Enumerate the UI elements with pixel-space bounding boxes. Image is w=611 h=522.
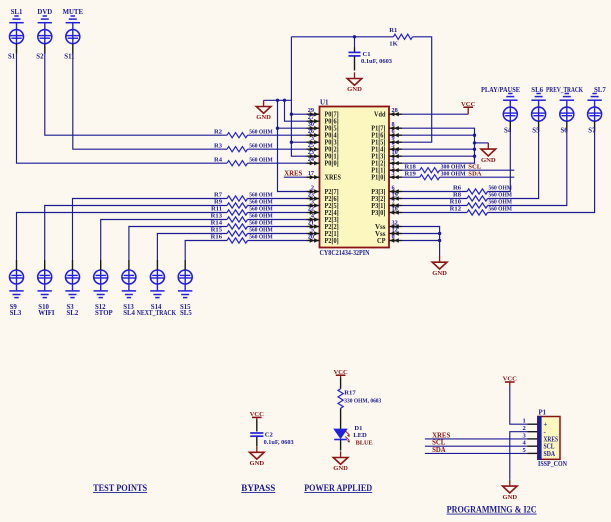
ground for C1 — [347, 72, 362, 93]
svg-text:R17: R17 — [344, 390, 356, 397]
svg-text:SCL: SCL — [432, 440, 446, 447]
svg-text:VCC: VCC — [461, 101, 476, 108]
svg-text:P0[0]: P0[0] — [325, 161, 339, 168]
wire Vdd to VCC — [402, 113, 468, 115]
capsense button S4 (PLAY/PAUSE) — [481, 87, 520, 134]
svg-text:P3[1]: P3[1] — [371, 203, 385, 210]
svg-text:0.1uF, 0603: 0.1uF, 0603 — [361, 58, 393, 65]
svg-text:S2: S2 — [36, 54, 44, 61]
svg-text:D1: D1 — [354, 425, 362, 432]
pin 10 P1[3] — [371, 149, 402, 160]
svg-text:560 OHM: 560 OHM — [249, 142, 273, 149]
pin 12 Vss — [375, 227, 402, 238]
svg-text:6: 6 — [392, 185, 395, 192]
svg-text:VCC: VCC — [250, 411, 265, 418]
capsense button S9 (SL3) — [9, 260, 23, 317]
capsense button S10 (WIFI) — [38, 260, 55, 317]
svg-text:R2: R2 — [214, 128, 223, 135]
pin 29 P0[7] — [307, 107, 339, 118]
ground for P1 — [502, 480, 517, 501]
svg-text:SL2: SL2 — [67, 310, 79, 317]
pin 5 P1[4] — [371, 142, 402, 153]
capsense button S3 (SL2) — [65, 260, 79, 317]
wire branch to P0[7] — [291, 113, 306, 115]
pin 32 Vss — [375, 220, 402, 231]
pin 3 P2[5] — [307, 199, 339, 210]
junction — [276, 99, 279, 102]
svg-text:WIFI: WIFI — [38, 310, 55, 317]
junction — [276, 127, 279, 130]
title POWER APPLIED — [304, 484, 372, 494]
pin 6 P1[6] — [371, 128, 402, 139]
junction — [290, 113, 293, 116]
svg-text:P1: P1 — [539, 410, 547, 417]
pin 25 P0[2] — [307, 142, 339, 153]
svg-text:560 OHM: 560 OHM — [489, 192, 513, 199]
svg-text:Vss: Vss — [375, 224, 386, 231]
svg-text:R18: R18 — [405, 163, 417, 170]
svg-text:SL3: SL3 — [10, 310, 22, 317]
svg-text:2: 2 — [311, 185, 314, 192]
svg-text:P2[3]: P2[3] — [325, 217, 339, 224]
LED D1 BLUE — [334, 425, 373, 450]
power VCC for P1 — [503, 376, 518, 386]
svg-text:P1[0]: P1[0] — [371, 175, 385, 182]
wire gnd to P0[6] — [285, 100, 307, 121]
wire S2 to R2 — [45, 53, 227, 135]
svg-text:NEXT_TRACK: NEXT_TRACK — [137, 310, 177, 317]
svg-text:GND: GND — [333, 465, 348, 472]
capsense button S1 (SL1) — [8, 9, 24, 61]
svg-text:ISSP_CON: ISSP_CON — [538, 461, 567, 468]
svg-text:XRES: XRES — [284, 171, 302, 178]
svg-text:560 OHM: 560 OHM — [249, 128, 273, 135]
wire P1[3] — [402, 155, 476, 158]
capsense button S14 (NEXT_TRACK) — [137, 260, 177, 317]
wire pin2 to GND — [510, 432, 528, 480]
svg-text:P0[6]: P0[6] — [325, 119, 339, 126]
svg-text:300 OHM: 300 OHM — [441, 163, 467, 170]
resistor R15 560 OHM — [211, 227, 307, 236]
svg-text:P2[1]: P2[1] — [325, 231, 339, 238]
pin 17 XRES — [307, 170, 342, 181]
svg-text:Vdd: Vdd — [374, 112, 386, 119]
power VCC for C2 — [250, 411, 265, 419]
svg-text:560 OHM: 560 OHM — [489, 206, 513, 213]
resistor R10 560 OHM — [402, 199, 513, 208]
svg-text:23: 23 — [308, 149, 314, 156]
wire S9 to R — [17, 213, 228, 261]
svg-text:P1[2]: P1[2] — [371, 161, 385, 168]
svg-text:P2[2]: P2[2] — [325, 224, 339, 231]
svg-text:CP: CP — [377, 238, 386, 245]
wire P1[7] bus — [402, 128, 475, 163]
capsense button S11 (MUTE) — [63, 9, 84, 61]
svg-text:SL4: SL4 — [123, 310, 135, 317]
capsense button S7 (SL7) — [587, 87, 606, 134]
wire S1 to R4 — [17, 53, 228, 163]
svg-text:S5: S5 — [532, 127, 540, 134]
svg-text:STOP: STOP — [95, 310, 113, 317]
svg-text:P2[5]: P2[5] — [325, 203, 339, 210]
svg-text:27: 27 — [308, 114, 314, 121]
svg-text:560 OHM: 560 OHM — [249, 234, 273, 241]
pin 27 P0[6] — [307, 114, 339, 125]
wire branch to P0[5] — [278, 127, 307, 129]
pin 21 P2[2] — [307, 220, 339, 231]
pin 22 P2[4] — [307, 206, 339, 217]
wire S11 to R3 — [73, 53, 227, 149]
svg-text:560 OHM: 560 OHM — [249, 227, 273, 234]
wire Vss net — [402, 227, 440, 257]
svg-text:560 OHM: 560 OHM — [489, 185, 513, 192]
svg-text:S1: S1 — [8, 54, 16, 61]
pin 19 P3[2] — [371, 192, 402, 203]
title TEST POINTS — [93, 484, 147, 494]
pin 1 P1[1] — [371, 163, 402, 174]
wire S15 to R — [185, 241, 227, 261]
svg-text:R8: R8 — [453, 192, 462, 199]
svg-text:GND: GND — [502, 494, 517, 501]
svg-text:22: 22 — [308, 206, 314, 213]
pin 26 P0[4] — [307, 128, 339, 139]
capsense button S5 (SL6) — [531, 87, 546, 134]
svg-text:C2: C2 — [265, 432, 274, 439]
node SCL to connector — [425, 440, 528, 447]
svg-text:SL5: SL5 — [180, 310, 192, 317]
svg-text:P1[6]: P1[6] — [371, 133, 385, 140]
power VCC at Vdd — [461, 101, 476, 114]
svg-text:560 OHM: 560 OHM — [249, 213, 273, 220]
svg-text:SL6: SL6 — [531, 87, 543, 94]
pin 24 P0[0] — [307, 156, 339, 167]
svg-text:3: 3 — [392, 170, 395, 177]
svg-text:560 OHM: 560 OHM — [249, 206, 273, 213]
svg-text:18: 18 — [392, 206, 398, 213]
pin 9 P1[5] — [371, 135, 402, 146]
wire S3 to R — [73, 199, 228, 261]
wire S10 to R — [45, 206, 227, 261]
pin 20 P2[0] — [307, 234, 339, 245]
svg-text:6: 6 — [392, 128, 395, 135]
capsense button S12 (STOP) — [94, 260, 113, 317]
svg-text:560 OHM: 560 OHM — [249, 192, 273, 199]
svg-text:GND: GND — [347, 86, 362, 93]
svg-text:PREV_TRACK: PREV_TRACK — [546, 87, 584, 94]
svg-text:R4: R4 — [214, 156, 223, 163]
resistor R18 300 OHM (SCL) — [402, 163, 514, 172]
svg-text:XRES: XRES — [325, 175, 342, 182]
svg-text:GND: GND — [432, 270, 447, 277]
svg-text:LED: LED — [353, 432, 367, 439]
svg-text:1: 1 — [523, 418, 526, 425]
svg-text:P3[2]: P3[2] — [371, 196, 385, 203]
svg-text:R15: R15 — [211, 227, 223, 234]
svg-text:SDA: SDA — [544, 451, 556, 458]
resistor R4 560 OHM — [214, 156, 307, 165]
svg-text:R7: R7 — [214, 192, 223, 199]
resistor R8 560 OHM — [402, 192, 513, 201]
power VCC for R17 — [333, 369, 348, 377]
svg-text:XRES: XRES — [432, 432, 450, 439]
svg-text:XRES: XRES — [544, 436, 559, 443]
svg-text:+: + — [544, 422, 548, 429]
wire gnd to P2[7] — [278, 100, 307, 191]
svg-text:9: 9 — [392, 135, 395, 142]
svg-text:8: 8 — [392, 121, 395, 128]
wire VCC to pin1 — [510, 386, 528, 424]
pin 28 Vdd — [374, 107, 402, 118]
svg-text:MUTE: MUTE — [63, 9, 84, 16]
svg-text:P0[3]: P0[3] — [325, 140, 339, 147]
wire top net vertical — [291, 37, 306, 156]
svg-text:SDA: SDA — [468, 170, 481, 177]
svg-text:P2[0]: P2[0] — [325, 238, 339, 245]
svg-text:R10: R10 — [450, 199, 462, 206]
title BYPASS — [241, 484, 275, 494]
node SDA to connector — [425, 447, 528, 454]
svg-text:DVD: DVD — [37, 9, 52, 16]
pin 18 P3[0] — [371, 206, 402, 217]
wire S13 to R — [129, 227, 227, 261]
title PROGRAMMING & I2C — [447, 505, 537, 515]
svg-text:S6: S6 — [561, 127, 569, 134]
svg-text:P1[1]: P1[1] — [371, 168, 385, 175]
resistor R16 560 OHM — [211, 234, 307, 243]
svg-text:0.1uF, 0603: 0.1uF, 0603 — [264, 439, 295, 446]
ground for C2 — [249, 446, 264, 467]
wire gnd branch — [473, 141, 489, 144]
resistor R1 1K — [389, 27, 412, 47]
svg-text:R14: R14 — [211, 220, 223, 227]
connector P1 ISSP_CON — [523, 410, 568, 468]
svg-text:S4: S4 — [504, 127, 512, 134]
svg-text:560 OHM: 560 OHM — [249, 156, 273, 163]
resistor R2 560 OHM — [214, 128, 307, 137]
svg-text:3: 3 — [311, 199, 314, 206]
resistor R11 560 OHM — [211, 206, 307, 215]
svg-text:P0[5]: P0[5] — [325, 126, 339, 133]
svg-text:BLUE: BLUE — [356, 439, 373, 446]
pin 3 P1[0] — [371, 170, 402, 181]
svg-text:R12: R12 — [450, 206, 462, 213]
svg-text:R11: R11 — [211, 206, 222, 213]
ground left of U1 — [256, 100, 271, 121]
svg-text:7: 7 — [392, 199, 395, 206]
ground for D1 — [333, 451, 348, 472]
pin 4 P2[3] — [307, 213, 339, 224]
svg-text:P0[2]: P0[2] — [325, 147, 339, 154]
pin 0 CP — [377, 234, 402, 245]
svg-text:21: 21 — [308, 220, 314, 227]
svg-text:300 OHM: 300 OHM — [441, 170, 467, 177]
svg-text:560 OHM: 560 OHM — [249, 199, 273, 206]
svg-text:PLAY/PAUSE: PLAY/PAUSE — [481, 87, 520, 94]
svg-text:P2[6]: P2[6] — [325, 196, 339, 203]
resistor R13 560 OHM — [211, 213, 307, 222]
wire S14 to R — [157, 234, 227, 261]
wire left gnd net — [264, 99, 292, 101]
resistor R9 560 OHM — [214, 199, 307, 208]
svg-text:0: 0 — [392, 234, 395, 241]
svg-text:R1: R1 — [389, 27, 397, 34]
wire R8 to S5 — [488, 131, 539, 199]
svg-text:CY8C21434-32PIN: CY8C21434-32PIN — [320, 249, 370, 257]
svg-text:P0[4]: P0[4] — [325, 133, 339, 140]
pin 2 P2[7] — [307, 185, 339, 196]
capacitor C1 0.1uF — [349, 37, 393, 71]
svg-text:VCC: VCC — [333, 369, 348, 376]
wire R12 to S7 — [488, 131, 595, 213]
svg-text:GND: GND — [249, 460, 264, 467]
capsense button S13 (SL4) — [122, 260, 136, 317]
svg-text:R3: R3 — [214, 142, 223, 149]
svg-text:P2[4]: P2[4] — [325, 210, 339, 217]
svg-text:1: 1 — [392, 163, 395, 170]
svg-text:P0[7]: P0[7] — [325, 112, 339, 119]
pin 8 P1[7] — [371, 121, 402, 132]
svg-text:10: 10 — [392, 149, 398, 156]
svg-text:SL7: SL7 — [594, 87, 606, 94]
svg-text:Vss: Vss — [375, 231, 386, 238]
capsense button S2 (DVD) — [36, 9, 52, 61]
resistor R12 560 OHM — [402, 206, 513, 215]
junction — [290, 141, 293, 144]
resistor R3 560 OHM — [214, 142, 307, 151]
wire P1[4] — [402, 148, 476, 151]
wire R6 to S4 — [488, 131, 511, 192]
node XRES — [284, 171, 307, 178]
pin 23 P0[1] — [307, 149, 339, 160]
svg-text:20: 20 — [308, 234, 314, 241]
svg-text:R9: R9 — [214, 199, 223, 206]
svg-text:330 OHM, 0603: 330 OHM, 0603 — [344, 397, 382, 404]
pin 23 P2[6] — [307, 192, 339, 203]
svg-text:5: 5 — [392, 142, 395, 149]
svg-text:24: 24 — [308, 156, 315, 163]
pin 30 P0[5] — [307, 121, 339, 132]
pin 5 P2[1] — [307, 227, 339, 238]
svg-text:SCL: SCL — [468, 163, 481, 170]
wire top net — [291, 37, 431, 142]
svg-text:12: 12 — [392, 227, 398, 234]
ground for Vss — [432, 256, 447, 277]
svg-text:23: 23 — [308, 192, 314, 199]
pin 4 P1[2] — [371, 156, 402, 167]
svg-text:P2[7]: P2[7] — [325, 189, 339, 196]
svg-text:U1: U1 — [320, 99, 329, 107]
resistor R6 560 OHM — [402, 185, 513, 194]
svg-text:P1[4]: P1[4] — [371, 147, 385, 154]
capsense button S6 (PREV_TRACK) — [546, 87, 584, 134]
wire Vss2 — [402, 232, 441, 235]
svg-text:P1[5]: P1[5] — [371, 140, 385, 147]
resistor R7 560 OHM — [214, 192, 307, 201]
resistor R19 300 OHM (SDA) — [402, 170, 514, 179]
svg-text:26: 26 — [308, 128, 314, 135]
svg-text:560 OHM: 560 OHM — [249, 220, 273, 227]
ground right of U1 — [481, 143, 496, 164]
wire P1[6] — [402, 134, 476, 137]
resistor R17 330 OHM — [338, 377, 382, 429]
junction C1 tap — [353, 35, 356, 38]
svg-text:R6: R6 — [453, 185, 462, 192]
svg-text:P1[7]: P1[7] — [371, 126, 385, 133]
pin 3 P0[3] — [307, 135, 339, 146]
svg-text:29: 29 — [308, 107, 314, 114]
svg-text:5: 5 — [311, 227, 314, 234]
wire S12 to R — [101, 220, 227, 261]
svg-text:GND: GND — [256, 114, 271, 121]
svg-text:30: 30 — [308, 121, 314, 128]
svg-text:GND: GND — [481, 157, 496, 164]
resistor R14 560 OHM — [211, 220, 307, 229]
node XRES to connector — [425, 432, 528, 439]
capsense button S15 (SL5) — [178, 260, 192, 317]
svg-text:P3[3]: P3[3] — [371, 189, 385, 196]
svg-text:S7: S7 — [588, 127, 596, 134]
wire R10 to S6 — [488, 131, 567, 206]
svg-text:P1[3]: P1[3] — [371, 154, 385, 161]
svg-text:SCL: SCL — [544, 444, 555, 451]
svg-text:SDA: SDA — [432, 447, 446, 454]
junction — [283, 99, 286, 102]
svg-text:S11: S11 — [64, 54, 75, 61]
svg-text:28: 28 — [392, 107, 398, 114]
svg-text:R19: R19 — [405, 170, 417, 177]
svg-text:560 OHM: 560 OHM — [489, 199, 513, 206]
wire CP — [402, 239, 441, 242]
svg-text:19: 19 — [392, 192, 398, 199]
svg-text:VCC: VCC — [503, 376, 518, 383]
svg-text:P0[1]: P0[1] — [325, 154, 339, 161]
svg-text:32: 32 — [392, 220, 398, 227]
pin 6 P3[3] — [371, 185, 402, 196]
pin 7 P3[1] — [371, 199, 402, 210]
svg-text:17: 17 — [308, 170, 314, 177]
svg-text:3: 3 — [311, 135, 314, 142]
svg-text:R16: R16 — [211, 234, 223, 241]
wire branch to P0[3] — [291, 141, 306, 143]
capacitor C2 0.1uF — [250, 419, 294, 446]
svg-text:1K: 1K — [389, 41, 398, 48]
svg-text:R13: R13 — [211, 213, 223, 220]
svg-text:SL1: SL1 — [11, 9, 23, 16]
svg-text:25: 25 — [308, 142, 314, 149]
op-amp U1 CY8C21434-32PIN body — [320, 99, 390, 257]
svg-text:P3[0]: P3[0] — [371, 210, 385, 217]
